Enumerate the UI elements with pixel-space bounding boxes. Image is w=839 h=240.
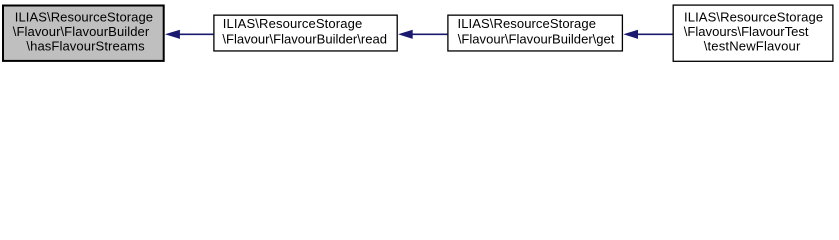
arrow from read to hasFlavourStreams — [166, 30, 214, 38]
arrow from testNewFlavour to get — [624, 30, 672, 38]
node box hasFlavourStreams (current, grey) — [3, 6, 164, 61]
svg-text:\Flavours\FlavourTest: \Flavours\FlavourTest — [684, 24, 809, 39]
svg-text:ILIAS\ResourceStorage: ILIAS\ResourceStorage — [458, 16, 597, 31]
svg-text:\hasFlavourStreams: \hasFlavourStreams — [26, 39, 145, 54]
arrow from get to read — [399, 30, 447, 38]
node box get — [448, 15, 623, 51]
node box testNewFlavour — [673, 5, 833, 61]
svg-text:\Flavour\FlavourBuilder\get: \Flavour\FlavourBuilder\get — [458, 31, 615, 46]
svg-text:ILIAS\ResourceStorage: ILIAS\ResourceStorage — [223, 16, 363, 31]
svg-text:ILIAS\ResourceStorage: ILIAS\ResourceStorage — [15, 9, 153, 24]
node box read — [214, 15, 397, 51]
svg-text:\Flavour\FlavourBuilder\read: \Flavour\FlavourBuilder\read — [222, 31, 387, 46]
svg-text:\testNewFlavour: \testNewFlavour — [704, 39, 801, 54]
svg-text:ILIAS\ResourceStorage: ILIAS\ResourceStorage — [684, 9, 823, 24]
svg-text:\Flavour\FlavourBuilder: \Flavour\FlavourBuilder — [13, 24, 150, 39]
